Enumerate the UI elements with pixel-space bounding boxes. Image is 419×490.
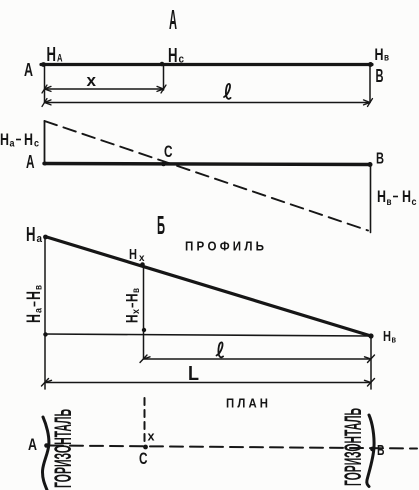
svg-text:С: С [139, 449, 148, 468]
svg-text:Н: Н [129, 246, 137, 263]
svg-text:А: А [24, 60, 33, 80]
svg-text:С: С [164, 142, 173, 161]
svg-text:с: с [34, 139, 39, 150]
svg-text:Н: Н [123, 315, 142, 324]
svg-text:Н: Н [47, 44, 57, 66]
svg-text:А: А [57, 53, 63, 65]
svg-text:А: А [169, 4, 177, 35]
svg-text:Н: Н [24, 130, 33, 149]
svg-text:Н: Н [377, 187, 386, 206]
svg-text:Н: Н [168, 45, 178, 67]
svg-text:а: а [34, 308, 45, 313]
svg-text:х: х [148, 429, 156, 444]
svg-text:L: L [188, 363, 199, 385]
svg-text:х: х [139, 252, 145, 264]
svg-text:в: в [131, 288, 142, 293]
svg-text:Н: Н [26, 224, 36, 246]
svg-text:ГОРИЗОНТАЛЬ: ГОРИЗОНТАЛЬ [50, 409, 77, 488]
svg-text:Н: Н [0, 130, 9, 149]
svg-text:Н: Н [402, 187, 411, 206]
svg-text:А: А [28, 435, 37, 454]
svg-text:В: В [376, 151, 384, 168]
svg-text:Н: Н [375, 45, 384, 64]
svg-text:П Л А Н: П Л А Н [226, 396, 268, 411]
svg-text:с: с [179, 54, 185, 66]
svg-text:А: А [26, 152, 35, 172]
svg-text:х: х [87, 71, 97, 90]
svg-text:Н: Н [123, 294, 142, 303]
svg-text:в: в [392, 335, 397, 345]
svg-text:в: в [387, 197, 392, 208]
svg-text:Н: Н [383, 328, 391, 345]
svg-text:в: в [34, 285, 45, 290]
svg-text:В: В [377, 442, 385, 459]
svg-text:а: а [37, 233, 43, 245]
svg-text:В: В [376, 66, 384, 86]
svg-text:а: а [10, 139, 15, 150]
svg-text:с: с [412, 197, 417, 208]
svg-text:Н: Н [24, 291, 45, 300]
svg-text:Н: Н [24, 314, 45, 323]
svg-text:Б: Б [157, 210, 165, 240]
svg-text:в: в [384, 53, 389, 64]
svg-text:П Р О Ф И Л Ь: П Р О Ф И Л Ь [185, 239, 264, 254]
svg-text:х: х [131, 309, 142, 314]
svg-text:ГОРИЗОНТАЛЬ: ГОРИЗОНТАЛЬ [340, 408, 367, 486]
